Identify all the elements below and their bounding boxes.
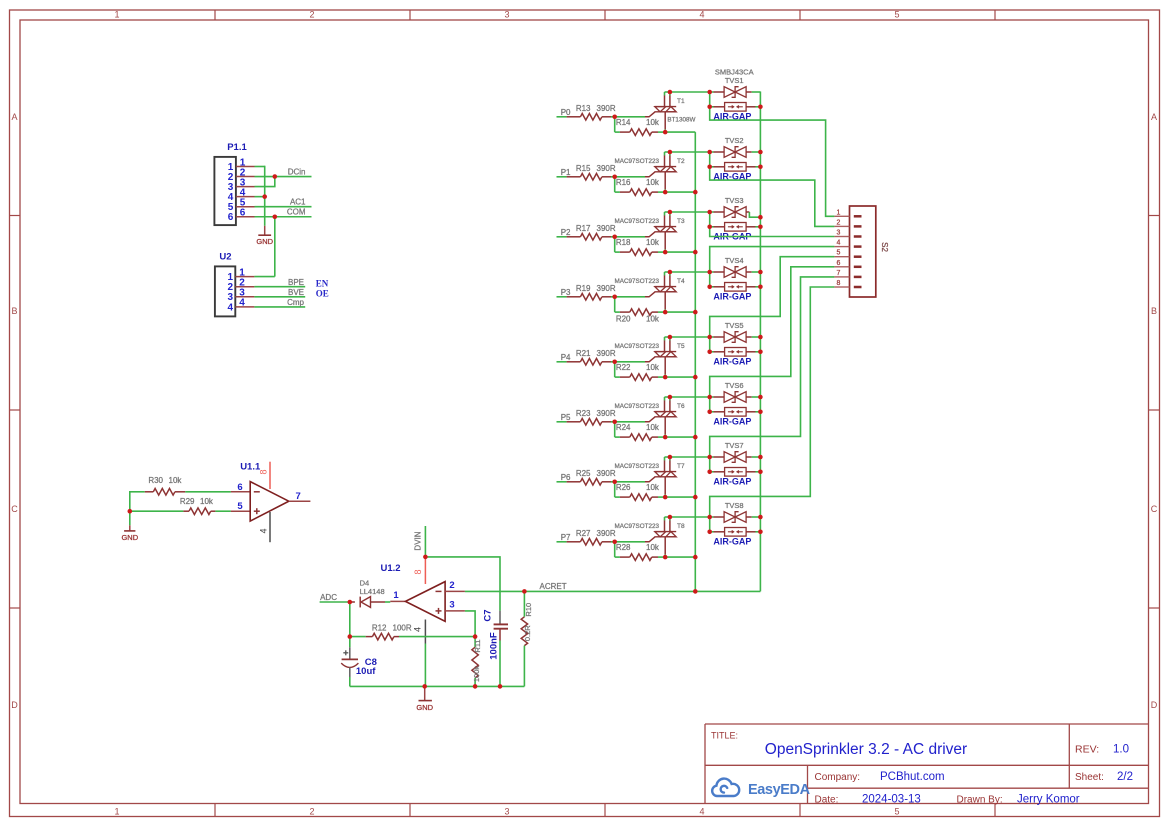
svg-text:P1: P1 <box>561 168 571 177</box>
svg-text:C7: C7 <box>483 609 494 621</box>
svg-text:LL4148: LL4148 <box>360 587 385 596</box>
svg-text:BVE: BVE <box>288 288 304 297</box>
svg-text:10k: 10k <box>646 238 660 247</box>
svg-text:8: 8 <box>837 280 841 287</box>
svg-text:Sheet:: Sheet: <box>1075 772 1104 783</box>
svg-text:0.2R: 0.2R <box>523 625 532 641</box>
svg-text:AIR-GAP: AIR-GAP <box>713 356 751 366</box>
svg-text:D: D <box>1151 700 1158 710</box>
svg-text:4: 4 <box>227 302 233 313</box>
svg-text:EN: EN <box>316 279 329 289</box>
svg-text:5: 5 <box>237 501 243 512</box>
svg-text:R23: R23 <box>576 409 591 418</box>
svg-text:AIR-GAP: AIR-GAP <box>713 416 751 426</box>
svg-text:EasyEDA: EasyEDA <box>748 782 811 798</box>
svg-text:U1.2: U1.2 <box>381 563 401 574</box>
svg-text:R14: R14 <box>616 118 631 127</box>
svg-text:BT1308W: BT1308W <box>667 116 695 123</box>
svg-text:4: 4 <box>239 298 245 309</box>
svg-text:R22: R22 <box>616 363 631 372</box>
svg-text:MAC97SOT223: MAC97SOT223 <box>615 463 660 470</box>
svg-text:B: B <box>11 306 17 316</box>
svg-text:ACRET: ACRET <box>540 582 567 591</box>
svg-text:R10: R10 <box>524 603 533 617</box>
svg-text:7: 7 <box>837 270 841 277</box>
svg-text:1: 1 <box>114 10 119 20</box>
svg-text:R27: R27 <box>576 529 591 538</box>
svg-text:P4: P4 <box>561 353 571 362</box>
svg-text:390R: 390R <box>597 529 616 538</box>
svg-text:TITLE:: TITLE: <box>711 731 738 741</box>
svg-text:R25: R25 <box>576 469 591 478</box>
svg-text:R17: R17 <box>576 224 591 233</box>
svg-text:R15: R15 <box>576 164 591 173</box>
svg-text:P1.1: P1.1 <box>227 142 247 153</box>
svg-text:GND: GND <box>416 703 433 712</box>
svg-text:C: C <box>1151 504 1158 514</box>
svg-text:R24: R24 <box>616 423 631 432</box>
svg-text:B: B <box>1151 306 1157 316</box>
svg-text:Cmp: Cmp <box>287 298 304 307</box>
svg-text:R21: R21 <box>576 349 591 358</box>
svg-text:MAC97SOT223: MAC97SOT223 <box>615 218 660 225</box>
svg-text:4: 4 <box>837 240 841 247</box>
svg-text:COM: COM <box>287 208 306 217</box>
svg-text:4: 4 <box>699 10 704 20</box>
svg-text:R11: R11 <box>473 639 482 652</box>
svg-text:BPE: BPE <box>288 278 304 287</box>
svg-text:TVS4: TVS4 <box>725 256 744 265</box>
svg-text:10k: 10k <box>200 497 214 506</box>
svg-text:MAC97SOT223: MAC97SOT223 <box>615 523 660 530</box>
svg-text:S2: S2 <box>880 242 889 252</box>
svg-text:MAC97SOT223: MAC97SOT223 <box>615 403 660 410</box>
svg-text:1: 1 <box>114 806 119 816</box>
svg-text:DCin: DCin <box>288 167 306 176</box>
svg-text:R16: R16 <box>616 178 631 187</box>
svg-text:R30: R30 <box>148 476 163 485</box>
svg-text:GND: GND <box>121 533 138 542</box>
svg-text:10k: 10k <box>646 315 660 324</box>
svg-text:P5: P5 <box>561 413 571 422</box>
svg-text:T2: T2 <box>677 158 685 165</box>
svg-text:MAC97SOT223: MAC97SOT223 <box>615 278 660 285</box>
svg-text:DVIN: DVIN <box>414 531 423 550</box>
svg-text:R13: R13 <box>576 104 591 113</box>
svg-text:R20: R20 <box>616 315 631 324</box>
svg-text:T4: T4 <box>677 278 685 285</box>
svg-text:A: A <box>11 112 17 122</box>
svg-text:10uf: 10uf <box>356 666 376 677</box>
svg-text:2024-03-13: 2024-03-13 <box>862 794 921 806</box>
svg-text:1: 1 <box>393 590 399 601</box>
svg-text:7: 7 <box>296 491 301 502</box>
svg-text:2/2: 2/2 <box>1117 771 1133 783</box>
svg-text:TVS8: TVS8 <box>725 501 744 510</box>
svg-text:2: 2 <box>309 806 314 816</box>
svg-text:10k: 10k <box>169 476 183 485</box>
svg-text:OE: OE <box>316 289 329 299</box>
svg-text:10k: 10k <box>646 423 660 432</box>
svg-text:D: D <box>11 700 18 710</box>
svg-text:AIR-GAP: AIR-GAP <box>713 291 751 301</box>
svg-text:3: 3 <box>449 600 454 611</box>
svg-text:A: A <box>1151 112 1157 122</box>
svg-text:OpenSprinkler 3.2 - AC driver: OpenSprinkler 3.2 - AC driver <box>765 741 967 758</box>
svg-text:U2: U2 <box>219 251 231 262</box>
svg-text:5: 5 <box>837 250 841 257</box>
svg-text:REV:: REV: <box>1075 744 1099 756</box>
svg-text:3: 3 <box>837 230 841 237</box>
svg-text:R12: R12 <box>372 624 387 633</box>
svg-text:4: 4 <box>413 627 423 632</box>
svg-text:6: 6 <box>237 482 242 493</box>
svg-text:GND: GND <box>256 237 273 246</box>
svg-text:2: 2 <box>837 219 841 226</box>
svg-text:4: 4 <box>258 528 268 533</box>
svg-text:T1: T1 <box>677 98 685 105</box>
svg-text:C: C <box>11 504 18 514</box>
svg-text:6: 6 <box>228 212 234 223</box>
svg-text:5: 5 <box>894 10 899 20</box>
svg-text:R29: R29 <box>180 497 195 506</box>
svg-text:1: 1 <box>837 209 841 216</box>
svg-text:TVS5: TVS5 <box>725 321 744 330</box>
svg-text:R19: R19 <box>576 284 591 293</box>
svg-text:PCBhut.com: PCBhut.com <box>880 771 945 783</box>
svg-text:390R: 390R <box>597 224 616 233</box>
svg-text:T5: T5 <box>677 343 685 350</box>
svg-text:8: 8 <box>259 469 269 474</box>
svg-text:T6: T6 <box>677 403 685 410</box>
svg-text:TVS1: TVS1 <box>725 76 744 85</box>
svg-text:TVS3: TVS3 <box>725 196 744 205</box>
svg-text:P7: P7 <box>561 533 571 542</box>
svg-text:AIR-GAP: AIR-GAP <box>713 476 751 486</box>
svg-text:390R: 390R <box>597 104 616 113</box>
svg-text:P0: P0 <box>561 108 571 117</box>
svg-text:P2: P2 <box>561 228 571 237</box>
svg-text:10k: 10k <box>646 178 660 187</box>
svg-text:390R: 390R <box>597 164 616 173</box>
svg-text:10k: 10k <box>646 118 660 127</box>
svg-text:10k: 10k <box>646 483 660 492</box>
svg-text:R26: R26 <box>616 483 631 492</box>
svg-text:P3: P3 <box>561 288 571 297</box>
svg-text:MAC97SOT223: MAC97SOT223 <box>615 158 660 165</box>
svg-text:2: 2 <box>449 580 454 591</box>
svg-text:TVS6: TVS6 <box>725 381 744 390</box>
svg-text:5: 5 <box>894 806 899 816</box>
svg-text:100R: 100R <box>393 624 412 633</box>
svg-text:390R: 390R <box>597 349 616 358</box>
svg-text:R18: R18 <box>616 238 631 247</box>
svg-text:2: 2 <box>309 10 314 20</box>
svg-text:TVS7: TVS7 <box>725 441 744 450</box>
svg-text:390R: 390R <box>597 469 616 478</box>
svg-text:T3: T3 <box>677 218 685 225</box>
svg-text:R28: R28 <box>616 543 631 552</box>
svg-text:ADC: ADC <box>320 593 337 602</box>
svg-text:Jerry Komor: Jerry Komor <box>1017 794 1080 806</box>
svg-text:T7: T7 <box>677 463 685 470</box>
svg-text:AIR-GAP: AIR-GAP <box>713 536 751 546</box>
svg-text:390R: 390R <box>597 409 616 418</box>
svg-text:10k: 10k <box>646 363 660 372</box>
svg-text:Company:: Company: <box>815 772 861 783</box>
svg-text:3: 3 <box>504 806 509 816</box>
svg-text:6: 6 <box>837 260 841 267</box>
svg-text:Date:: Date: <box>815 794 839 805</box>
svg-text:10k: 10k <box>646 543 660 552</box>
svg-text:TVS2: TVS2 <box>725 136 744 145</box>
svg-text:4: 4 <box>699 806 704 816</box>
svg-text:P6: P6 <box>561 473 571 482</box>
svg-text:1.0: 1.0 <box>1113 744 1129 756</box>
svg-text:Drawn By:: Drawn By: <box>957 794 1003 805</box>
svg-text:100k: 100k <box>472 666 481 683</box>
svg-text:T8: T8 <box>677 523 685 530</box>
svg-text:AC1: AC1 <box>290 198 306 207</box>
svg-text:390R: 390R <box>597 284 616 293</box>
svg-text:MAC97SOT223: MAC97SOT223 <box>615 343 660 350</box>
svg-text:8: 8 <box>413 569 423 574</box>
svg-text:100nF: 100nF <box>489 632 500 660</box>
svg-text:3: 3 <box>504 10 509 20</box>
svg-text:6: 6 <box>240 208 246 219</box>
